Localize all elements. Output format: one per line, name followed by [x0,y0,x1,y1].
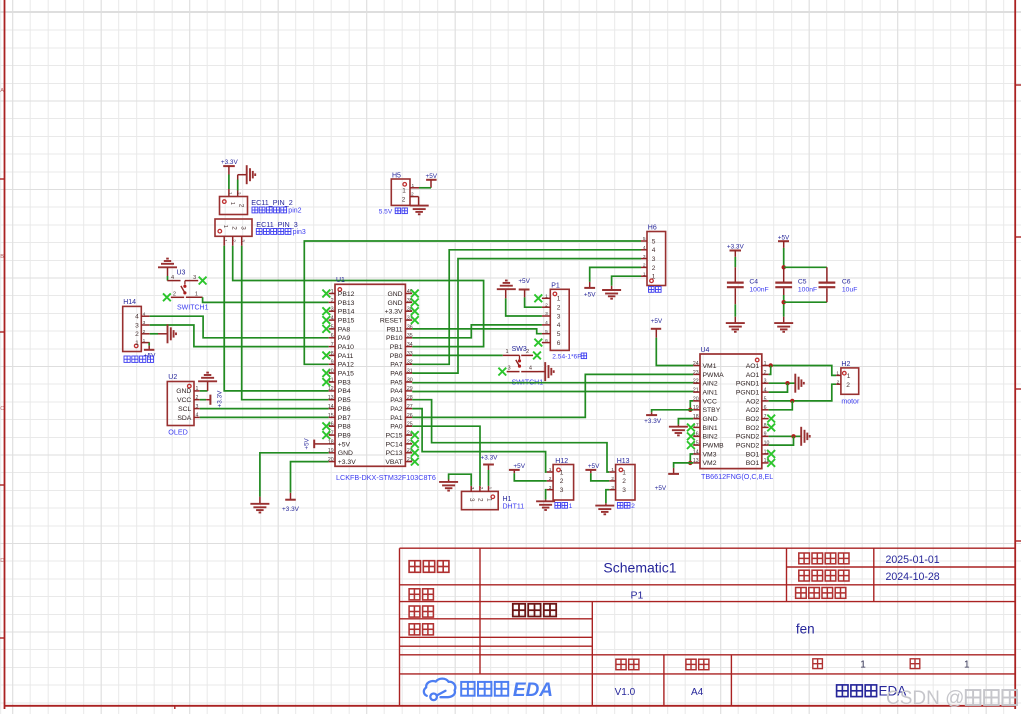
title update date label [799,553,849,564]
svg-text:4: 4 [529,366,532,372]
svg-text:AO1: AO1 [746,372,760,379]
capacitor C6 10uF [826,267,828,281]
svg-text:PB0: PB0 [390,353,403,360]
svg-text:VCC: VCC [703,398,717,405]
svg-text:1: 1 [560,469,564,476]
wire U4 AIN2 to U1 PA5 [412,382,693,384]
title schematic name label [409,561,449,573]
svg-text:PB15: PB15 [338,317,355,324]
svg-text:PA11: PA11 [338,353,354,360]
connector H1 DHT11 [462,491,499,509]
svg-text:+3.3V: +3.3V [644,418,662,425]
svg-text:DHT11: DHT11 [503,504,525,511]
svg-text:P1: P1 [551,282,560,289]
svg-text:3: 3 [135,322,139,329]
svg-text:+5V: +5V [584,291,596,298]
svg-text:2: 2 [135,331,139,338]
svg-text:PGND2: PGND2 [736,443,760,450]
svg-text:3: 3 [240,226,247,230]
svg-text:3: 3 [507,365,510,371]
svg-text:AO2: AO2 [746,398,760,405]
ic U1 LCKFB-DKX-STM32F103C8T6 [335,284,405,466]
connector EC11_PIN_3 [215,219,252,236]
svg-text:GND: GND [387,300,402,307]
wire C5 bottom [783,288,785,295]
svg-text:AIN1: AIN1 [703,389,718,396]
svg-text:3: 3 [652,256,656,263]
svg-text:GND: GND [703,416,718,423]
svg-text:PWMB: PWMB [703,443,725,450]
svg-text:C5: C5 [798,278,807,285]
label annotation pin2 [252,207,287,213]
svg-text:pin2: pin2 [288,208,301,215]
ground (C4) [726,322,745,324]
svg-text:PC14: PC14 [386,441,403,448]
svg-text:1: 1 [229,202,235,205]
title review label [409,624,433,635]
svg-text:PB11: PB11 [386,326,402,333]
junction AO2 [790,399,794,403]
svg-text:A: A [0,88,4,94]
power +5V (U4 VM1) [656,338,693,366]
connector P1 [550,289,569,350]
label servo1 [555,503,568,509]
wire U1 PA3 to H13 pin1 [412,400,609,472]
label servo2 [617,503,630,509]
title total label [910,659,920,669]
svg-text:+5V: +5V [588,463,600,470]
svg-text:AO1: AO1 [746,363,760,370]
svg-text:VM1: VM1 [703,363,717,370]
svg-text:3: 3 [469,487,475,490]
svg-text:PA12: PA12 [338,362,354,369]
svg-text:PA6: PA6 [390,371,403,378]
svg-text:PA4: PA4 [390,388,403,395]
svg-text:1: 1 [569,503,573,510]
title material code label [796,588,846,599]
svg-text:2: 2 [526,349,529,355]
title drawn-by name [513,604,556,617]
ground (P1 pin3) [506,298,542,316]
ic U4 TB6612FNG [700,354,762,469]
svg-text:+5V: +5V [518,278,530,285]
svg-text:SW3: SW3 [512,346,527,353]
svg-text:3: 3 [560,487,564,494]
ground (H5 pin2) [418,197,420,206]
svg-text:AO2: AO2 [746,407,760,414]
svg-text:H6: H6 [648,225,657,232]
no-connect marks U1 right [411,290,419,298]
svg-text:SDA: SDA [177,415,191,422]
svg-text:TB6612FNG(O,C,8,EL: TB6612FNG(O,C,8,EL [701,472,773,481]
svg-text:PA5: PA5 [390,379,403,386]
svg-text:P1: P1 [631,590,644,602]
wire U4 AO2 to H2 pin2 [769,384,837,401]
svg-text:2: 2 [478,487,484,490]
ground (H1 pin3) [449,474,472,486]
svg-text:C: C [0,406,4,412]
svg-text:C4: C4 [749,278,758,285]
svg-text:PB3: PB3 [338,379,351,386]
svg-text:U3: U3 [177,270,186,277]
wire P1 pin5 to U1 PB11 [412,329,542,334]
wire EC11_PIN_3 pin2 to U1 PB1 [233,246,484,347]
wire U2 SCL to U1 PB6 [200,408,329,410]
svg-text:PB6: PB6 [338,406,351,413]
svg-text:VM3: VM3 [703,451,717,458]
svg-text:3: 3 [557,313,561,320]
power +3.3V (U4 STBY) [652,410,694,413]
ic U2 OLED [167,382,194,426]
svg-text:5: 5 [557,331,561,338]
svg-text:SCL: SCL [178,406,191,413]
wire AO1 pins tie [769,366,771,375]
svg-text:BO1: BO1 [746,460,760,467]
svg-text:PB1: PB1 [390,344,403,351]
svg-text:4: 4 [652,247,656,254]
svg-text:1: 1 [622,469,626,476]
svg-text:1: 1 [195,292,198,298]
svg-text:U4: U4 [701,347,710,354]
ground (H13 pin3) [606,490,609,504]
svg-text:SWITCH1: SWITCH1 [177,305,209,312]
svg-text:PB10: PB10 [386,335,403,342]
svg-text:BIN1: BIN1 [703,425,718,432]
no-connect U4 left pins [687,424,695,432]
svg-text:2: 2 [173,292,176,298]
svg-text:BIN2: BIN2 [703,434,718,441]
svg-text:+3.3V: +3.3V [385,309,403,316]
power +5V (H6 pin2) [590,267,641,282]
svg-text:6: 6 [557,340,561,347]
wire U3 pin4 to ground [167,276,169,281]
svg-text:PC15: PC15 [386,433,403,440]
connector H13 [616,465,635,501]
svg-text:PWMA: PWMA [703,372,725,379]
ground (H14 pin2) [150,333,158,335]
svg-text:BO1: BO1 [746,451,760,458]
wire C5 top to C6 top [784,266,827,268]
svg-text:PGND1: PGND1 [736,389,760,396]
ground (U4 PGND1) [769,382,795,384]
svg-text:H5: H5 [392,173,401,180]
wire U4 AO1 to H2 pin1 [769,366,837,376]
wire C5 bottom to C6 bottom [784,301,827,303]
svg-text:+5V: +5V [426,173,438,180]
title size label [686,659,709,670]
label voice module (H14) [124,356,154,362]
svg-text:+5V: +5V [655,485,667,492]
wire EC11_PIN_2 pin1 to +3.3V [228,175,230,190]
svg-text:1: 1 [964,660,970,671]
logo JLCEDA cloud [424,679,456,700]
wire U4 VM3 to VM2 net [690,454,693,463]
power +3.3V (H1 pin1) [488,470,490,486]
svg-text:1: 1 [222,225,228,228]
svg-text:EDA: EDA [513,680,553,701]
svg-text:PGND1: PGND1 [736,381,760,388]
svg-text:PA0: PA0 [390,424,403,431]
capacitor C4 100nF [727,282,744,284]
wire U1 PA2 to H12 pin1 [412,409,547,472]
power +3.3V (U1 pin20) [291,462,329,493]
svg-text:PB13: PB13 [338,300,355,307]
wire U4 AIN1 to U1 PA4 [412,391,693,393]
svg-text:OLED: OLED [168,428,188,437]
svg-text:AIN2: AIN2 [703,381,718,388]
svg-text:1: 1 [505,349,508,355]
svg-text:4: 4 [135,314,139,321]
junction AO1 [769,363,773,367]
no-connect SW3 pin3 [498,368,506,376]
svg-text:PB12: PB12 [338,291,355,298]
wire SW3 pin1 to U1 PB0 [412,354,503,356]
svg-text:2: 2 [560,478,564,485]
svg-text:PB9: PB9 [338,433,351,440]
svg-text:PB7: PB7 [338,415,351,422]
ground (EC11_PIN_2 pin2) [238,174,247,176]
connector H2 motor [841,368,859,394]
wire U1 PA0 to H1 pin2 [412,426,480,486]
svg-text:GND: GND [338,450,353,457]
svg-text:1: 1 [847,373,851,380]
svg-text:2: 2 [557,305,561,312]
wire +5V to C5 [783,241,785,248]
no-connect P1 pin1 [534,294,542,302]
svg-text:BO2: BO2 [746,416,760,423]
power +5V (H14 pin1) [148,343,150,346]
svg-text:pin3: pin3 [293,229,306,236]
wire EC11_PIN_3 pin3 to U1 PB5 [242,246,329,400]
svg-text:+3.3V: +3.3V [282,506,300,513]
connector EC11_PIN_2 [220,197,248,215]
svg-text:D: D [0,558,4,564]
wire H14 pin4 to U1 PA9 [150,316,329,338]
ground (U1 pin19) [260,453,329,497]
wire EC11_PIN_2 pin2 to ground [237,175,239,180]
connector H14 [123,306,142,351]
title version label [616,659,639,670]
svg-text:PB14: PB14 [338,309,355,316]
ground (SW3 pin4) [538,371,545,373]
svg-text:1: 1 [557,296,561,303]
svg-text:fen: fen [796,622,815,637]
power +5V (U1 pin18) [314,443,329,445]
power +5V (U4 VM2) [674,463,694,468]
wire U4 VCC to STBY net [690,401,693,410]
svg-text:H14: H14 [123,299,136,306]
svg-text:4: 4 [557,322,561,329]
ground (H12 pin3) [546,490,547,500]
svg-text:1: 1 [222,239,228,242]
no-connect U3 pin3 [199,277,207,285]
svg-text:2: 2 [402,197,406,204]
power +5V (P1 pin2) [525,297,542,307]
power +5V (H12 pin2) [514,473,546,481]
label annotation pin3 [256,229,291,235]
svg-text:U2: U2 [168,374,177,381]
svg-text:2: 2 [236,192,242,195]
svg-text:PA8: PA8 [338,326,351,333]
wire U2 SDA to U1 PB7 [200,416,329,418]
svg-text:PA3: PA3 [390,397,403,404]
svg-text:+3.3V: +3.3V [217,390,224,408]
svg-text:2: 2 [652,265,656,272]
svg-text:3: 3 [240,239,246,242]
no-connect SW3 pin2 [533,352,541,360]
svg-text:2: 2 [231,226,238,230]
no-connect U3 pin2 [163,293,171,301]
svg-text:100nF: 100nF [798,287,817,294]
junction C5 bottom [782,300,786,304]
wire U3 pin1 to U1 PB13 [203,297,329,302]
svg-text:2: 2 [631,503,635,510]
connector H6 [647,232,666,286]
svg-text:1: 1 [135,340,139,347]
title sheet label [409,589,433,600]
junction VCC-STBY [688,408,692,412]
svg-text:GND: GND [387,291,402,298]
title create date label [799,570,849,581]
svg-text:5: 5 [652,238,656,245]
svg-text:4: 4 [171,275,174,281]
svg-text:PA2: PA2 [390,406,403,413]
svg-text:H1: H1 [503,496,512,503]
svg-text:EC11_PIN_2: EC11_PIN_2 [251,198,292,207]
wire H6 pin4 to U1 PA7 [412,250,641,364]
svg-text:1: 1 [485,498,492,502]
H5 pin stubs [410,187,419,189]
svg-text:1: 1 [487,487,493,490]
ground (U3 pin4) [158,266,177,268]
power +5V (H13 pin2) [591,473,609,481]
svg-text:2024-10-28: 2024-10-28 [886,571,940,583]
svg-text:PA9: PA9 [338,335,351,342]
wire H6 pin5 to U1 PA12 [304,241,641,364]
wire AO2 pins tie [769,401,793,410]
pin stubs EC11_PIN_3 [223,236,225,246]
wire P1 pin4 to U1 PB10 [412,325,542,338]
svg-text:GND: GND [176,388,191,395]
svg-text:STBY: STBY [703,407,721,414]
ground (U4 GND) [678,419,693,425]
svg-text:VCC: VCC [177,397,191,404]
svg-text:3: 3 [468,498,475,502]
svg-text:3: 3 [622,487,626,494]
no-connect U4 right pins [767,415,775,423]
wire H6 pin3 to U1 PA6 [412,259,641,374]
svg-text:RESET: RESET [380,317,403,324]
svg-text:BO2: BO2 [746,425,760,432]
svg-text:1: 1 [402,187,406,194]
svg-text:Schematic1: Schematic1 [603,560,676,576]
wire C4 to ground [734,288,736,304]
svg-text:PC13: PC13 [386,450,403,457]
svg-text:PB8: PB8 [338,424,351,431]
svg-text:+3.3V: +3.3V [481,454,499,461]
title drawn-by label [409,606,433,617]
junction C5 top [782,265,786,269]
wire +3.3V to C4 [734,251,736,257]
svg-text:C6: C6 [842,278,851,285]
svg-text:2.54-1*6P: 2.54-1*6P [552,354,582,361]
ground (H6 pin1) [612,276,641,286]
svg-text:2: 2 [477,498,484,502]
junction VM3-VM2 [688,461,692,465]
ground (C5) [783,317,785,323]
svg-text:2: 2 [231,239,237,242]
svg-text:100nF: 100nF [749,287,768,294]
svg-text:PGND2: PGND2 [736,434,760,441]
svg-text:+5V: +5V [338,441,351,448]
title page label [813,659,823,669]
svg-text:PA7: PA7 [390,362,403,369]
svg-text:2: 2 [846,382,850,389]
label H6 joystick [649,287,662,293]
svg-text:2025-01-01: 2025-01-01 [886,554,940,566]
svg-text:PB4: PB4 [338,388,351,395]
wire U4 PWMA to U1 PA1 [412,374,693,417]
ground (U4 PGND2) [769,435,801,437]
svg-text:H12: H12 [555,458,568,465]
svg-text:1: 1 [860,660,866,671]
svg-text:VBAT: VBAT [385,459,402,466]
svg-text:A4: A4 [691,687,704,698]
ground (U2 pin1) [200,390,208,392]
title block lines [400,548,1016,706]
svg-text:motor: motor [841,399,860,406]
svg-text:+5V: +5V [513,463,525,470]
connector H5 [391,179,410,205]
svg-text:H13: H13 [617,458,630,465]
logo JLCEDA text [461,682,508,696]
svg-text:2: 2 [622,478,626,485]
svg-text:1: 1 [227,192,233,195]
svg-text:B: B [0,254,4,260]
wire H5 pin1 to +5V [419,187,431,189]
svg-text:10uF: 10uF [842,287,858,294]
svg-text:+5V: +5V [651,318,663,325]
svg-text:LCKFB-DKX-STM32F103C8T6: LCKFB-DKX-STM32F103C8T6 [336,473,436,482]
svg-text:2: 2 [238,204,245,208]
svg-text:+3.3V: +3.3V [338,459,356,466]
connector H12 [553,465,574,501]
svg-text:U1: U1 [336,277,345,284]
svg-text:+5V: +5V [304,437,311,449]
svg-text:PA10: PA10 [338,344,354,351]
svg-text:3: 3 [193,275,196,281]
svg-text:PA15: PA15 [338,371,354,378]
svg-text:V1.0: V1.0 [615,687,636,698]
capacitor C5 100nF [775,282,792,284]
svg-text:CSDN @: CSDN @ [886,688,964,709]
wire H14 pin3 to U1 PA10 [150,325,329,347]
wire EC11_PIN_3 pin1 to U1 PB4 [224,246,329,391]
power +3.3V (U2 pin2) [200,399,206,401]
svg-text:VM2: VM2 [703,460,717,467]
title JLCEDA name [837,685,877,697]
svg-text:H2: H2 [841,361,850,368]
no-connect marks U1 left [322,290,330,298]
svg-text:PA1: PA1 [390,415,403,422]
svg-text:5.5V: 5.5V [379,209,393,216]
svg-text:PB5: PB5 [338,397,351,404]
no-connect P1 pin6 [534,339,542,347]
svg-text:EC11_PIN_3: EC11_PIN_3 [256,220,297,229]
